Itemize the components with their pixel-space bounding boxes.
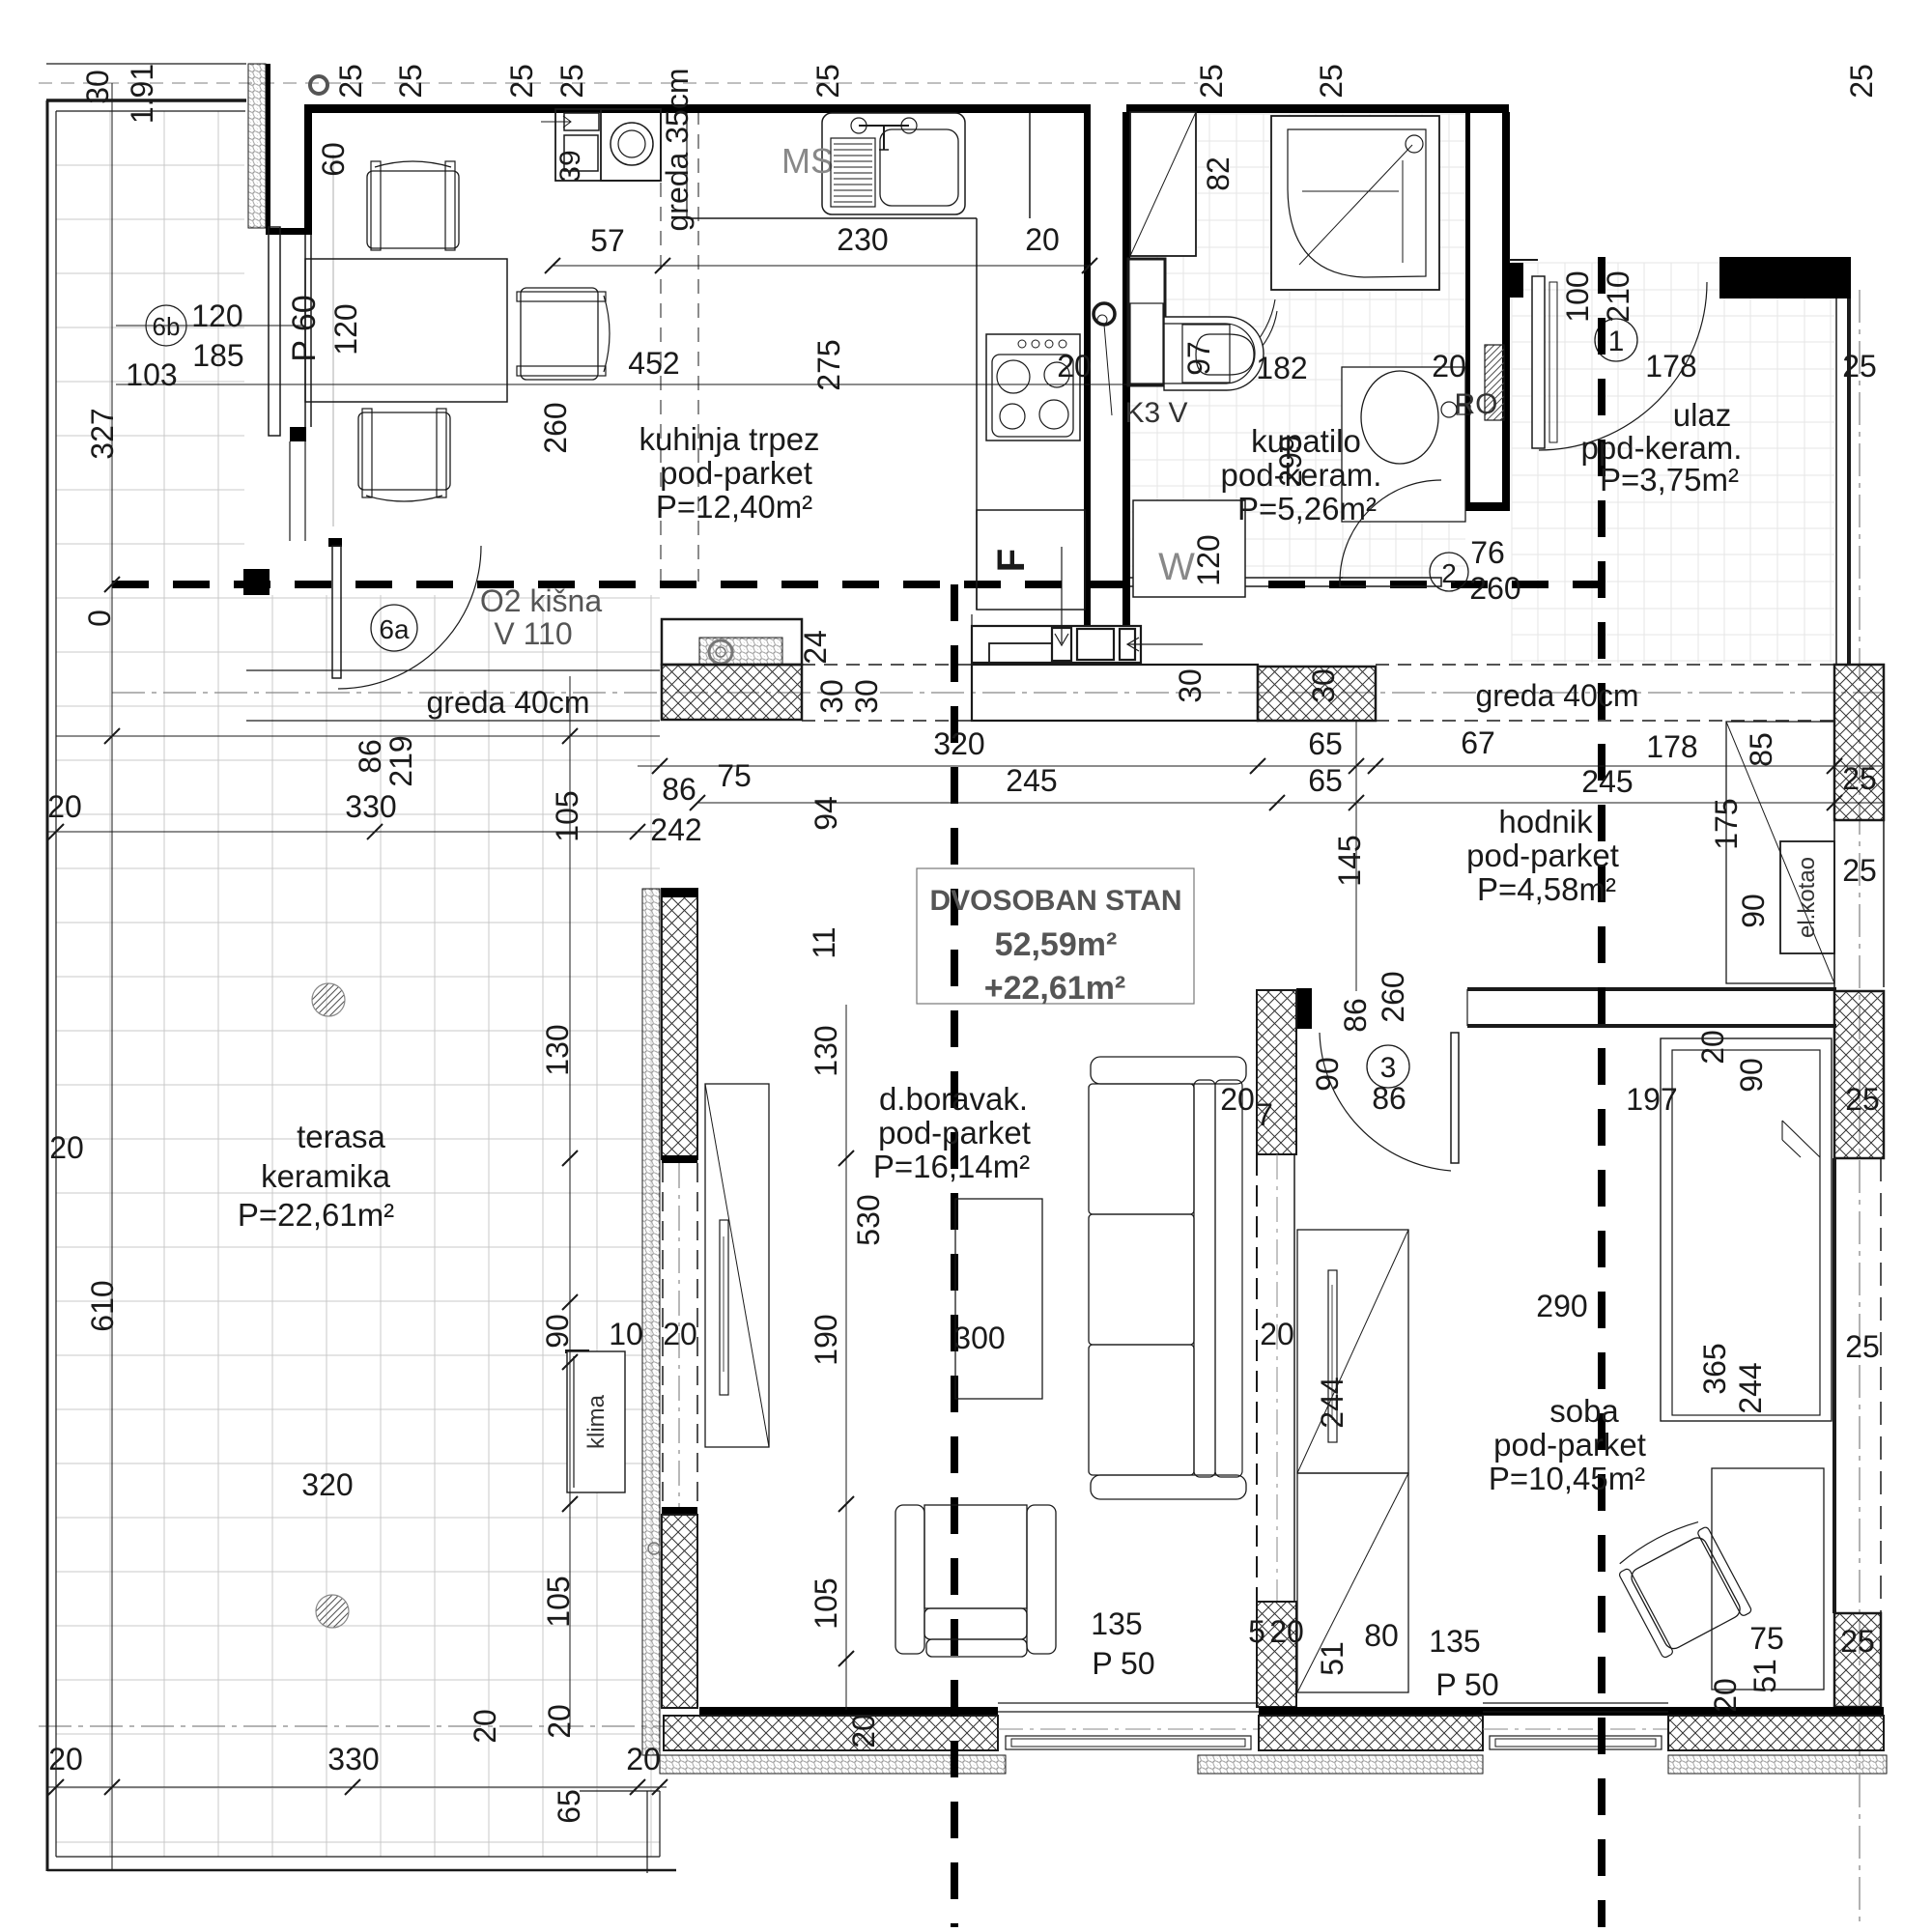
- svg-text:20: 20: [542, 1704, 577, 1739]
- svg-text:3: 3: [1380, 1052, 1397, 1084]
- kitchen dining table: [305, 259, 507, 402]
- MS faucet: [851, 118, 867, 133]
- threshold arrow down: [1061, 547, 1063, 643]
- terrace left boundary wall: [46, 100, 49, 1871]
- living-soba wall white middle: [1256, 1154, 1258, 1602]
- svg-text:6b: 6b: [153, 312, 181, 341]
- soba door leaf: [1451, 1033, 1459, 1163]
- living west wall cap above opening: [662, 1155, 697, 1163]
- svg-text:el.kotao: el.kotao: [1794, 857, 1820, 938]
- svg-text:30: 30: [814, 679, 849, 714]
- ventilation niche bathroom: [1130, 112, 1196, 256]
- svg-text:25: 25: [504, 64, 539, 99]
- insulation band below soba left: [1198, 1755, 1483, 1774]
- svg-text:25: 25: [1194, 64, 1229, 99]
- svg-text:86: 86: [1372, 1081, 1406, 1116]
- svg-text:25: 25: [810, 64, 845, 99]
- living window sill: [1006, 1736, 1251, 1749]
- svg-text:51: 51: [1747, 1659, 1782, 1693]
- column hatch block right wall greda: [1834, 665, 1884, 820]
- section line horizontal: [112, 581, 1602, 588]
- svg-text:20: 20: [846, 1714, 881, 1748]
- svg-text:39: 39: [554, 150, 586, 182]
- svg-text:178: 178: [1645, 349, 1696, 384]
- svg-text:30: 30: [80, 70, 115, 104]
- svg-text:320: 320: [933, 726, 984, 761]
- right wall white segment 1: [1833, 820, 1835, 987]
- soba bottom hatch band left: [1259, 1716, 1483, 1750]
- svg-text:DVOSOBAN STAN: DVOSOBAN STAN: [929, 885, 1181, 917]
- kitchen chair top: [367, 161, 459, 250]
- washing machine W bathroom: [1133, 500, 1245, 597]
- toilet: [1164, 317, 1264, 390]
- kitchen left wall jog: [266, 228, 312, 235]
- svg-text:290: 290: [1536, 1289, 1587, 1323]
- greda 40cm beam rect living-hodnik: [972, 665, 1258, 721]
- svg-text:178: 178: [1646, 729, 1697, 764]
- right wall hatch block soba: [1834, 1613, 1881, 1707]
- svg-text:327: 327: [85, 408, 120, 459]
- living-soba wall hatch upper: [1257, 990, 1296, 1154]
- soba bottom wall: [1259, 1707, 1884, 1716]
- svg-text:86: 86: [1338, 998, 1373, 1033]
- door tag 6a circle: [371, 605, 417, 651]
- axis dash-dot line greda35 right: [697, 110, 699, 582]
- svg-text:25: 25: [1840, 1624, 1875, 1659]
- soba window sill: [1490, 1736, 1662, 1749]
- svg-text:25: 25: [1842, 853, 1877, 888]
- bathroom sink counter: [1342, 367, 1465, 522]
- svg-text:320: 320: [301, 1467, 353, 1502]
- el.kotao boiler: [1780, 841, 1834, 953]
- svg-text:330: 330: [345, 789, 396, 824]
- small sink unit 39: [555, 109, 661, 181]
- dim line kitchen top y275: [553, 265, 1090, 267]
- shower door arcs: [1188, 299, 1275, 377]
- svg-text:130: 130: [540, 1024, 575, 1075]
- axis dash-dot line terrace bottom: [39, 1725, 671, 1727]
- MS drainboard: [831, 138, 875, 207]
- kitchen balcony door leaf: [269, 227, 280, 436]
- bathroom door jamb cap: [1465, 502, 1510, 511]
- dim line terrace y861: [47, 831, 660, 833]
- svg-text:86: 86: [353, 739, 387, 774]
- svg-text:V 110: V 110: [494, 616, 572, 651]
- svg-text:75: 75: [717, 758, 752, 793]
- svg-text:190: 190: [809, 1314, 843, 1365]
- svg-text:20: 20: [1708, 1678, 1743, 1713]
- bathroom right wall outer line: [1502, 112, 1510, 511]
- svg-text:P=5,26m²: P=5,26m²: [1237, 491, 1377, 526]
- door tag 1 circle: [1595, 319, 1637, 361]
- svg-text:RO: RO: [1455, 388, 1498, 420]
- svg-text:P 50: P 50: [1092, 1646, 1154, 1681]
- svg-text:25: 25: [333, 64, 368, 99]
- axis dash-dot line horizontal top: [39, 82, 1198, 84]
- svg-text:pod-parket: pod-parket: [1466, 838, 1619, 873]
- stove: [986, 334, 1080, 440]
- soba wardrobe upper: [1297, 1230, 1408, 1473]
- living bottom wall hatch band: [664, 1716, 998, 1750]
- entrance top wall thin line: [1509, 259, 1538, 261]
- section line vertical living: [951, 584, 958, 1927]
- svg-text:24: 24: [798, 630, 833, 665]
- column hatch block kitchen-terrace corner: [662, 619, 802, 665]
- svg-text:2: 2: [1441, 558, 1457, 588]
- svg-text:25: 25: [393, 64, 428, 99]
- wall circle symbol: [648, 1543, 660, 1554]
- svg-text:100: 100: [1560, 270, 1595, 322]
- svg-text:ulaz: ulaz: [1673, 397, 1732, 433]
- svg-text:260: 260: [1376, 971, 1410, 1022]
- klima unit: [567, 1351, 625, 1492]
- svg-text:120: 120: [1191, 534, 1226, 585]
- kitchen-bath dividing wall right line: [1122, 112, 1130, 638]
- dim line greda chain A: [638, 765, 1884, 767]
- entrance door swing arc: [1539, 282, 1707, 450]
- soba window frame: [1483, 1702, 1668, 1704]
- entrance right wall double line: [1835, 298, 1837, 665]
- svg-text:300: 300: [953, 1321, 1005, 1355]
- dim line left vertical x116: [111, 83, 113, 1870]
- soba wardrobe TV: [1328, 1270, 1337, 1442]
- kitchen left wall face line: [266, 64, 270, 229]
- soba door swing arc: [1320, 1033, 1451, 1171]
- door closer circle kitchen wall: [1094, 303, 1115, 325]
- svg-text:20: 20: [1432, 349, 1466, 384]
- TV cabinet living: [705, 1084, 769, 1447]
- svg-text:6a: 6a: [379, 614, 410, 644]
- hodnik wardrobe: [1726, 722, 1834, 983]
- door 6a jamb: [328, 538, 342, 547]
- svg-text:20: 20: [468, 1709, 502, 1744]
- svg-text:20: 20: [663, 1317, 697, 1351]
- svg-text:25: 25: [1842, 349, 1877, 384]
- svg-text:85: 85: [1744, 732, 1778, 767]
- svg-text:90: 90: [1736, 894, 1771, 928]
- svg-text:pod-parket: pod-parket: [660, 455, 812, 491]
- washing machine kitchen: [601, 109, 661, 181]
- greda 40cm beam dashed edges right: [1376, 664, 1834, 666]
- svg-text:20: 20: [49, 1130, 84, 1165]
- svg-text:65: 65: [1308, 726, 1343, 761]
- bathroom sink tap: [1441, 402, 1457, 417]
- svg-text:greda 35cm: greda 35cm: [660, 69, 695, 232]
- coffee table: [955, 1199, 1042, 1399]
- svg-text:135: 135: [1091, 1606, 1142, 1641]
- bathroom top exterior wall: [1126, 104, 1509, 113]
- svg-text:pod-parket: pod-parket: [1493, 1427, 1646, 1463]
- living west wall hatch lower: [662, 1515, 697, 1708]
- svg-text:530: 530: [851, 1194, 886, 1245]
- svg-text:80: 80: [1364, 1618, 1399, 1653]
- svg-text:greda 40cm: greda 40cm: [1476, 678, 1639, 713]
- terrace drain 1: [312, 983, 345, 1016]
- living west wall hatch upper: [662, 889, 697, 1159]
- dims 6b zone: [146, 305, 186, 346]
- svg-text:330: 330: [327, 1742, 379, 1776]
- svg-text:5: 5: [1248, 1614, 1265, 1649]
- svg-text:210: 210: [1601, 270, 1635, 322]
- door 6a leaf: [332, 546, 341, 678]
- svg-text:P 60: P 60: [286, 295, 323, 361]
- svg-text:terasa: terasa: [297, 1119, 385, 1154]
- svg-text:76: 76: [1470, 535, 1505, 570]
- svg-text:11: 11: [807, 926, 841, 958]
- svg-text:25: 25: [1842, 761, 1877, 796]
- terrace drain 2: [316, 1595, 349, 1628]
- svg-text:20: 20: [1260, 1317, 1294, 1351]
- svg-text:F: F: [990, 549, 1033, 572]
- svg-text:P 50: P 50: [1435, 1667, 1498, 1702]
- dim line terrace y762: [56, 735, 660, 737]
- svg-text:30: 30: [849, 679, 884, 714]
- section line vertical entrance: [1598, 257, 1605, 1927]
- svg-text:d.boravak.: d.boravak.: [879, 1081, 1028, 1117]
- svg-text:pod-parket: pod-parket: [878, 1115, 1031, 1151]
- svg-text:145: 145: [1332, 835, 1367, 886]
- svg-text:1.91: 1.91: [125, 64, 159, 124]
- label RO hatched: [1485, 345, 1504, 420]
- terrace door opening west dashed edge: [662, 1163, 664, 1507]
- svg-text:365: 365: [1697, 1343, 1732, 1394]
- svg-text:175: 175: [1709, 798, 1744, 849]
- bed: [1661, 1038, 1832, 1421]
- svg-text:klima: klima: [583, 1394, 610, 1449]
- svg-text:120: 120: [328, 303, 363, 355]
- svg-text:275: 275: [811, 339, 846, 390]
- axis dash-dot line greda center: [112, 692, 1884, 694]
- kitchen-bath dividing wall left line: [1084, 112, 1091, 626]
- MS sink unit: [822, 113, 965, 214]
- svg-text:20: 20: [47, 789, 82, 824]
- kitchen chair right: [517, 288, 610, 380]
- kitchen counter right band: [976, 218, 978, 610]
- svg-text:P=10,45m²: P=10,45m²: [1489, 1461, 1645, 1496]
- desk soba: [1712, 1468, 1824, 1690]
- svg-text:W: W: [1158, 546, 1195, 588]
- svg-text:20: 20: [1057, 349, 1092, 384]
- svg-text:+22,61m²: +22,61m²: [984, 970, 1126, 1007]
- living window frame: [998, 1702, 1259, 1704]
- soba window axis: [1483, 1728, 1668, 1730]
- hodnik-soba wall bottom line: [1467, 1024, 1836, 1028]
- title box DVOSOBAN STAN: [917, 868, 1194, 1004]
- kitchen window lower jamb: [290, 427, 306, 441]
- svg-text:130: 130: [809, 1025, 843, 1076]
- svg-text:105: 105: [550, 790, 584, 841]
- living bottom wall: [699, 1707, 998, 1716]
- column circle symbol top: [310, 76, 327, 94]
- living west wall cap below opening: [662, 1507, 697, 1515]
- drain symbol in column: [709, 640, 732, 664]
- bathroom door 2 swing arc: [1340, 480, 1441, 582]
- svg-text:219: 219: [384, 735, 418, 786]
- svg-text:0: 0: [82, 610, 117, 627]
- right wall segment 2 lines: [1833, 1158, 1836, 1613]
- living west wall cap top: [662, 889, 697, 897]
- svg-text:greda 40cm: greda 40cm: [427, 685, 590, 720]
- door tag 3 circle soba: [1367, 1045, 1409, 1088]
- svg-text:30: 30: [1306, 668, 1341, 703]
- svg-text:60: 60: [316, 142, 351, 177]
- kitchen chair bottom: [358, 409, 450, 501]
- svg-text:ppd-keram.: ppd-keram.: [1581, 430, 1743, 466]
- svg-text:105: 105: [541, 1576, 576, 1627]
- ceramic tile grid bathroom: [1130, 114, 1465, 578]
- armchair living: [895, 1505, 924, 1654]
- kitchen dim extension line: [332, 155, 334, 526]
- svg-text:57: 57: [590, 223, 625, 258]
- svg-text:197: 197: [1626, 1082, 1677, 1117]
- greda 40cm beam dashed edges terrace part: [246, 669, 660, 671]
- fridge box F: [977, 510, 1085, 610]
- svg-text:MS: MS: [781, 141, 834, 181]
- svg-text:20: 20: [1025, 222, 1060, 257]
- svg-text:65: 65: [552, 1789, 586, 1824]
- bathroom door 2 leaf: [1340, 578, 1441, 586]
- svg-text:86: 86: [662, 772, 696, 807]
- dim line hodnik vertical x1404: [1355, 721, 1357, 991]
- svg-text:260: 260: [538, 402, 573, 453]
- living-soba wall hatch lower: [1257, 1602, 1296, 1707]
- bathroom right wall inner line: [1465, 112, 1470, 511]
- svg-text:25: 25: [554, 64, 589, 99]
- svg-text:105: 105: [809, 1577, 843, 1629]
- kitchen counter top edge: [687, 217, 977, 219]
- svg-text:keramika: keramika: [261, 1158, 391, 1194]
- kitchen balcony window frame: [304, 235, 306, 427]
- terrace floor tile grid: [48, 97, 667, 1860]
- svg-text:25: 25: [1844, 64, 1879, 99]
- svg-text:230: 230: [837, 222, 888, 257]
- dim line terrace bottom: [47, 1786, 667, 1788]
- insulation strip kitchen left: [248, 64, 266, 228]
- kitchen bottom left wall piece: [243, 569, 270, 595]
- svg-text:244: 244: [1315, 1377, 1350, 1428]
- svg-text:25: 25: [1845, 1082, 1880, 1117]
- svg-text:7: 7: [1256, 1097, 1273, 1132]
- office chair soba: [1612, 1515, 1752, 1659]
- svg-text:30: 30: [1173, 668, 1207, 703]
- dim line kitchen 452: [116, 384, 1161, 385]
- ceramic tile grid entrance ulaz: [1512, 263, 1834, 663]
- svg-text:94: 94: [809, 796, 843, 831]
- svg-text:103: 103: [126, 357, 177, 392]
- svg-text:P=16,14m²: P=16,14m²: [873, 1149, 1030, 1184]
- svg-text:182: 182: [1256, 351, 1307, 385]
- dim line terrace vertical x590: [569, 676, 571, 1729]
- hodnik-soba wall top line: [1467, 987, 1836, 991]
- soba door jamb block: [1296, 988, 1312, 1029]
- svg-text:P=3,75m²: P=3,75m²: [1600, 462, 1739, 497]
- svg-text:10: 10: [609, 1317, 643, 1351]
- axis dash-dot line right side: [1859, 290, 1861, 1922]
- dim line living vertical x876: [845, 1005, 847, 1710]
- insulation band below living: [660, 1755, 1006, 1774]
- svg-text:82: 82: [1201, 156, 1236, 191]
- svg-text:90: 90: [1310, 1057, 1345, 1092]
- svg-text:135: 135: [1429, 1624, 1480, 1659]
- svg-text:299: 299: [1273, 435, 1308, 486]
- TV screen living: [720, 1220, 728, 1395]
- kitchen left wall upper: [304, 104, 312, 234]
- axis dash-dot line greda35 left: [660, 110, 662, 582]
- svg-text:260: 260: [1469, 571, 1520, 606]
- svg-text:soba: soba: [1549, 1393, 1619, 1429]
- entrance top wall block: [1719, 257, 1851, 298]
- svg-text:kuhinja trpez: kuhinja trpez: [639, 421, 819, 457]
- right wall hatch block hodnik: [1834, 991, 1884, 1158]
- svg-text:P=4,58m²: P=4,58m²: [1477, 871, 1616, 907]
- svg-text:O2 kišna: O2 kišna: [480, 583, 602, 618]
- svg-text:242: 242: [650, 812, 701, 847]
- kitchen passage threshold boxes: [972, 626, 1141, 663]
- svg-text:610: 610: [85, 1280, 120, 1331]
- column hatch block A greda: [662, 665, 802, 720]
- living window axis: [998, 1728, 1259, 1730]
- svg-text:P=12,40m²: P=12,40m²: [656, 489, 812, 525]
- svg-text:20: 20: [626, 1742, 661, 1776]
- svg-text:75: 75: [1749, 1621, 1784, 1656]
- svg-text:1: 1: [1608, 326, 1625, 357]
- svg-text:P=22,61m²: P=22,61m²: [238, 1197, 394, 1233]
- svg-text:20: 20: [1269, 1614, 1304, 1649]
- terrace bottom boundary: [56, 1856, 660, 1858]
- svg-text:90: 90: [1734, 1058, 1769, 1093]
- svg-text:51: 51: [1315, 1641, 1350, 1676]
- svg-text:67: 67: [1461, 725, 1495, 760]
- svg-text:25: 25: [1845, 1329, 1880, 1364]
- svg-text:20: 20: [1220, 1082, 1255, 1117]
- svg-text:65: 65: [1308, 763, 1343, 798]
- terrace right lower boundary: [646, 1791, 648, 1873]
- column hatch block B greda: [1258, 667, 1376, 721]
- svg-text:120: 120: [191, 298, 242, 333]
- svg-text:244: 244: [1733, 1362, 1768, 1413]
- threshold arrow left: [1127, 643, 1203, 645]
- soba wardrobe lower: [1297, 1473, 1408, 1692]
- svg-text:452: 452: [628, 346, 679, 381]
- svg-text:20: 20: [48, 1742, 83, 1776]
- terrace top boundary wall: [46, 63, 246, 65]
- insulation band below soba right: [1668, 1755, 1887, 1774]
- kitchen top exterior wall: [304, 104, 1091, 113]
- svg-text:20: 20: [1695, 1030, 1730, 1065]
- svg-text:245: 245: [1581, 764, 1633, 799]
- bathroom wall notch: [1509, 263, 1523, 298]
- svg-text:185: 185: [192, 338, 243, 373]
- bathroom bottom wall: [1130, 577, 1343, 579]
- svg-text:25: 25: [1314, 64, 1349, 99]
- door 6a swing arc: [338, 546, 481, 689]
- entrance door leaf: [1532, 276, 1545, 448]
- greda 40cm beam dashed edges middle: [802, 664, 972, 666]
- insulation strip living west: [642, 889, 660, 1755]
- svg-text:90: 90: [540, 1314, 575, 1349]
- dim line greda chain B: [697, 802, 1884, 804]
- terrace door opening lines: [678, 1163, 680, 1507]
- svg-text:245: 245: [1006, 763, 1057, 798]
- svg-text:52,59m²: 52,59m²: [995, 926, 1118, 963]
- svg-text:K3 V: K3 V: [1124, 397, 1187, 429]
- MS basin: [880, 129, 958, 206]
- svg-text:97: 97: [1181, 341, 1216, 376]
- svg-text:hodnik: hodnik: [1498, 804, 1593, 839]
- vent shaft box K3: [1128, 259, 1165, 385]
- soba bottom hatch band right: [1668, 1716, 1884, 1750]
- shower cabin: [1271, 116, 1439, 290]
